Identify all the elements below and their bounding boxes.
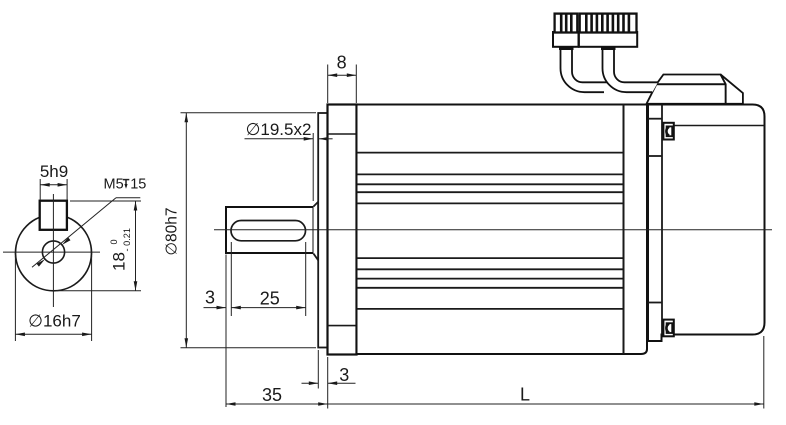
svg-text:∅16h7: ∅16h7 (28, 311, 81, 330)
dimension 35 (226, 385, 328, 406)
bottom clip latch (663, 320, 673, 337)
label M5T15 with depth symbol and leader (32, 176, 146, 267)
svg-text:25: 25 (260, 288, 280, 308)
dimension 3 (pilot plate) (302, 350, 356, 389)
side view motor body (357, 105, 648, 355)
svg-text:- 0.21: - 0.21 (122, 228, 132, 252)
svg-text:3: 3 (339, 365, 349, 385)
label Ø19.5x2 with dimension (245, 120, 333, 201)
side view front plate Ø80 (318, 113, 327, 348)
connector 1 cable stub (559, 46, 574, 50)
svg-text:∅80h7: ∅80h7 (164, 208, 181, 256)
dimension Ø80h7 (vertical, left of side view) (164, 113, 317, 348)
side view shaft keyway slot (231, 221, 306, 241)
left view keyway key rectangle (40, 201, 67, 230)
housing clamp band verticals and rungs (648, 105, 662, 335)
left view horizontal centerline (3, 251, 100, 253)
connector 2 cable stub (601, 46, 616, 50)
dimension 5h9 (40, 162, 68, 200)
side view motor centerline (214, 229, 772, 231)
flange corner line bottom (328, 325, 357, 327)
cable B inner line (614, 47, 658, 82)
left view vertical centerline (52, 194, 54, 307)
connector 2 body (579, 32, 637, 47)
cable cover hump top face (656, 75, 725, 85)
dimension 8 (flange width) (328, 52, 357, 103)
svg-text:8: 8 (337, 52, 347, 72)
svg-text:3: 3 (205, 287, 215, 307)
svg-text:∅19.5x2: ∅19.5x2 (246, 120, 312, 139)
svg-text:M5: M5 (104, 176, 124, 192)
cable A outer line (561, 47, 605, 92)
left view M5 tapped hole circle (42, 241, 64, 263)
shared extension line at flange face (327, 357, 329, 409)
connector 2 pin comb (580, 14, 637, 33)
dimension 18 0/-0.21 (57, 201, 141, 291)
dimension 3 (keyway offset) and 25 (keyway length) (204, 242, 306, 407)
cable cover hump front face (647, 84, 726, 104)
side view pilot spigot (314, 202, 319, 260)
flange corner line top (328, 133, 357, 135)
cable A inner line (572, 47, 615, 82)
body fin lines (357, 153, 624, 309)
body rear band line (623, 105, 625, 355)
dimension Ø16h7 (15, 256, 91, 341)
side view shaft (226, 207, 314, 253)
dimension L (328, 336, 764, 409)
cable B outer line (603, 47, 653, 92)
svg-text:35: 35 (262, 385, 282, 405)
svg-text:15: 15 (130, 176, 146, 192)
cable cover hump right facet (721, 75, 743, 104)
svg-text:L: L (520, 384, 530, 404)
svg-text:5h9: 5h9 (40, 162, 68, 181)
svg-text:18: 18 (110, 252, 129, 271)
cable B body fill (603, 47, 659, 92)
housing cover seam line (662, 125, 765, 127)
top clip latch (663, 123, 673, 140)
rear housing (648, 105, 765, 342)
left view big circle (shaft Ø16) (16, 215, 92, 291)
side view flange (328, 105, 357, 355)
connector 1 body (553, 32, 579, 47)
connector 1 pin comb (555, 14, 578, 33)
svg-text:0: 0 (109, 239, 119, 244)
